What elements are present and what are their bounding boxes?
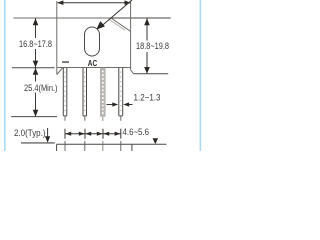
lead thickness dimension 1.2~1.3 <box>107 102 133 106</box>
lead 1 centerline chain below <box>64 116 66 151</box>
lead 1 <box>63 68 67 116</box>
2.0 reference stub line <box>21 142 55 144</box>
left height dimension 16.8~17.8 <box>33 18 39 68</box>
bottom box left edge <box>56 144 58 151</box>
chamfer top-right double line <box>111 18 131 32</box>
arrows seg2 <box>85 132 91 136</box>
left foot diagonal <box>57 68 63 75</box>
body outline front view <box>56 1 58 75</box>
lead 2 <box>83 68 87 116</box>
lead 1 center dots <box>64 72 66 115</box>
lead 4 centerline chain below <box>120 116 122 151</box>
right foot jog diagonal <box>131 70 134 74</box>
lead 3 white center dashes <box>102 71 104 116</box>
arrow down right of 4.6~5.6 <box>153 138 159 144</box>
lead 2 center dots <box>84 72 86 115</box>
arrows seg3 <box>103 132 109 136</box>
lead 2 centerline chain below <box>84 116 86 151</box>
lead 4 center dots <box>120 72 122 115</box>
svg-text:1.2~1.3: 1.2~1.3 <box>134 92 161 102</box>
svg-text:25.4(Min.): 25.4(Min.) <box>24 83 58 93</box>
body bottom edge <box>57 67 131 69</box>
blue page border left <box>4 0 6 151</box>
right bottom reference line <box>134 73 168 75</box>
arrows seg1 <box>65 132 71 136</box>
top width dimension line <box>57 0 131 5</box>
lead tip reference line <box>11 116 57 118</box>
right height dimension 18.8~19.8 <box>144 18 150 74</box>
lead 4 <box>119 68 123 116</box>
lead 3 (hidden, gray) <box>100 68 106 117</box>
body right edge with extension above <box>130 1 132 70</box>
left bottom reference line <box>12 67 55 69</box>
svg-text:16.8~17.8: 16.8~17.8 <box>19 39 52 49</box>
mounting hole <box>85 27 100 56</box>
bottom box right edge <box>131 144 133 151</box>
blue page border right <box>200 0 202 151</box>
2.0 leader arrow down <box>45 128 50 143</box>
lead 3 centerline chain below (gray) <box>102 117 104 151</box>
svg-text:2.0(Typ.): 2.0(Typ.) <box>14 128 46 138</box>
minus polarity label <box>62 61 69 62</box>
leader arrow to hole <box>97 0 132 29</box>
pitch dimension line with ticks <box>65 129 121 139</box>
bottom box top edge <box>57 143 167 145</box>
svg-text:AC: AC <box>88 59 97 68</box>
lead length dimension 25.4(Min.) <box>33 68 39 117</box>
svg-text:18.8~19.8: 18.8~19.8 <box>136 41 169 51</box>
svg-text:4.6~5.6: 4.6~5.6 <box>123 127 150 137</box>
body left edge with extension above <box>56 1 58 75</box>
